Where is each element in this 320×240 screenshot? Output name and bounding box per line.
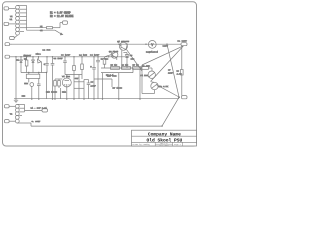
wire jog to connector [60, 23, 63, 28]
capacitor C3 [63, 57, 67, 75]
junction node Z [178, 96, 180, 98]
resistor R14 [58, 79, 61, 88]
connector J4 (HT in top rail) [5, 43, 12, 46]
fuse F2 on wire [47, 27, 61, 29]
connector J8 heater top [5, 105, 16, 108]
resistor R2 [81, 57, 84, 75]
diagonal wire F2 [151, 46, 184, 82]
svg-text:R4 220: R4 220 [101, 57, 109, 60]
connector J7 [182, 96, 188, 99]
capacitor C6 [84, 80, 90, 100]
transformer T1 winding loops [16, 5, 20, 35]
svg-text:Drawn by cowdog: Drawn by cowdog [133, 143, 150, 146]
meter M1 [148, 41, 156, 49]
wire Q2 base leg [105, 55, 111, 59]
svg-text:V1 0A2: V1 0A2 [62, 75, 71, 78]
vertical wire x140 [139, 69, 141, 99]
junction dots extra [15, 56, 122, 73]
svg-text:R5 1K: R5 1K [111, 64, 118, 67]
svg-text:Regulated: Regulated [146, 50, 159, 53]
junction dots raw rail [20, 56, 109, 57]
title block outline [132, 130, 197, 146]
connector J3 [63, 21, 68, 24]
svg-text:B+ 325V: B+ 325V [178, 40, 188, 43]
diagonal wire E [162, 97, 179, 126]
vertical wire x79 [65, 75, 82, 100]
svg-text:R7 100K: R7 100K [113, 87, 123, 90]
feedback wire [94, 79, 112, 87]
connector J9 [42, 109, 48, 112]
resistor R17 [133, 67, 141, 70]
resistor R9 [181, 70, 184, 76]
junction dot C11 [97, 56, 98, 57]
switch S1 [55, 30, 63, 35]
diagonal wire F1 [142, 46, 184, 65]
svg-text:R13 100K: R13 100K [46, 91, 57, 94]
transformer T1 taps [18, 5, 27, 31]
top rail B+ [12, 43, 181, 45]
connector J11 bottom [10, 36, 15, 39]
capacitor C1 [45, 57, 49, 73]
border frame [3, 2, 197, 146]
tube V1 [62, 75, 71, 100]
title field divider v2 [172, 142, 174, 146]
transformer T2 winding loops [15, 104, 19, 123]
sub-rail 2 [101, 72, 133, 74]
vertical wire x74 [73, 57, 75, 99]
svg-text:C3 16uF: C3 16uF [61, 54, 71, 57]
svg-text:Page 1: Page 1 [174, 143, 182, 146]
connector J2 (mains N) [4, 22, 16, 25]
title field divider v3 [182, 142, 184, 146]
resistor R5 [111, 67, 120, 70]
diagonal wire C [167, 44, 179, 97]
wire Q1 to divider [127, 50, 143, 72]
wire legs to ground [103, 68, 134, 99]
title mid cell divider [155, 143, 173, 145]
potentiometer P1 [148, 71, 155, 78]
diagonal wire D [157, 85, 180, 97]
zener D5 [123, 53, 128, 69]
capacitor C5 [37, 83, 41, 100]
wire Q1 emitter drop [121, 50, 123, 66]
svg-text:C. 60uF: C. 60uF [32, 120, 41, 123]
diode D1 [20, 57, 23, 73]
connector J5 (raw rail) [5, 55, 16, 58]
transformer T1 bus [26, 5, 28, 30]
svg-text:C2 16uF: C2 16uF [54, 57, 64, 60]
resistor R4 [103, 59, 106, 69]
connector J10 heater bottom [5, 120, 16, 123]
tie wire upper [74, 81, 84, 83]
connector J1 (mains L) [4, 7, 16, 10]
title row divider 2 [132, 141, 197, 143]
svg-text:C10+: C10+ [36, 53, 42, 56]
resistor R12 [60, 88, 62, 99]
ground symbol left [14, 99, 18, 103]
ground drop wire [15, 57, 17, 99]
connector J6 output [181, 43, 187, 46]
sub-rail 1 [101, 67, 142, 69]
capacitor C2 [51, 57, 55, 99]
title field divider v1 [154, 142, 156, 146]
svg-text:4.7K: 4.7K [177, 72, 183, 75]
svg-text:R6 1K: R6 1K [122, 64, 129, 67]
bridge node drop wire [46, 73, 48, 99]
svg-text:P1 10K: P1 10K [141, 74, 149, 77]
left loop wire [142, 65, 155, 94]
raw rail [16, 56, 129, 58]
transformer T1 bottom lead [14, 35, 17, 38]
svg-text:R8 47K: R8 47K [142, 65, 150, 68]
heater return jog [30, 123, 32, 126]
return wire [31, 125, 162, 127]
resistor R11 [54, 79, 63, 99]
resistor R6 [122, 67, 131, 70]
primary wire upper [27, 27, 47, 29]
title row divider 1 [132, 135, 197, 137]
svg-text:R12: R12 [62, 91, 67, 94]
junction dot return [161, 125, 162, 126]
junction dots top rail [118, 44, 167, 45]
svg-text:D2 5Y3: D2 5Y3 [43, 49, 52, 52]
svg-text:N2 = 12.6V DELUXE: N2 = 12.6V DELUXE [50, 15, 74, 18]
svg-text:L2 10H: L2 10H [79, 54, 88, 57]
transistor Q1 [119, 42, 127, 50]
wire R9 drop [181, 46, 183, 96]
transformer T2 bus [25, 104, 43, 112]
potentiometer P2 [151, 82, 158, 94]
svg-text:R16 56K: R16 56K [107, 74, 117, 77]
diode D2 [32, 57, 35, 73]
capacitor C4 [92, 57, 96, 99]
bridge bottom wire [21, 72, 47, 74]
resistor R1 [25, 57, 28, 73]
svg-text:10-1-2013: 10-1-2013 [159, 145, 168, 147]
lamp small circle [30, 83, 34, 99]
wire lower [27, 29, 56, 31]
transformer T2 taps [17, 104, 31, 123]
transistor Q2 [111, 51, 118, 60]
svg-text:C4 16uF: C4 16uF [90, 54, 100, 57]
svg-text:22uF: 22uF [168, 72, 174, 75]
junction dots ground rail [31, 98, 141, 99]
svg-text:Company Name: Company Name [148, 131, 181, 137]
resistor R8 [142, 67, 153, 72]
vertical wire x84 [83, 80, 85, 100]
resistor R3 on x74 [73, 66, 76, 71]
capacitor C11 [96, 57, 100, 99]
tie wire lower [74, 87, 84, 89]
rectangle component K1 [26, 73, 40, 83]
diode D3 diagonal [38, 57, 42, 73]
ground rail [14, 98, 179, 100]
svg-text:20uF: 20uF [91, 85, 97, 88]
